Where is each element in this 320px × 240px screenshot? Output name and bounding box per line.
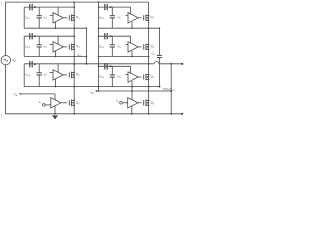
capacitor CP3 (vertical, inside loop) (37, 64, 42, 86)
wire left stage 1 opamp output to gate (63, 17, 67, 19)
source VP (AC source circle) (1, 56, 10, 65)
wire output rail right part (159, 63, 182, 65)
wire left stage 3 opamp output to gate (63, 74, 67, 76)
wire left lead lower (Vs to bottom rail) (4, 65, 6, 114)
wire right MOSFET bus (vertical) (148, 2, 150, 114)
wire right stage 2 opamp - input drop (131, 51, 133, 57)
node junction left bus / top rail (73, 1, 75, 3)
transistor Q1 (NMOS) (69, 15, 74, 22)
wire left stage 2 left edge (23, 36, 25, 56)
node bottom rail end terminal (181, 113, 183, 115)
transistor Q8 (bottom right) (NMOS) (144, 100, 149, 107)
node junction sense wire / bottom-right input (131, 90, 133, 92)
node junction row1 bottom / Cout corner (159, 27, 161, 29)
wire stage bottom wire shared row3 (24, 86, 159, 88)
node junction bus/stage1 bottom (73, 27, 75, 29)
wire right stage 1 bottom (99, 27, 160, 29)
node junction bottom-right / bottom rail (131, 113, 133, 115)
node junction stage2 bottom / link (86, 56, 88, 58)
wire right stage 1 opamp top feed (130, 7, 132, 14)
reference bubble (bottom-left opamp input) (43, 104, 46, 107)
wire left stage 2 opamp output to gate (63, 46, 67, 48)
wire right stage 3 top (99, 65, 131, 67)
wire left MOSFET bus (vertical) (73, 2, 75, 114)
node junction right bus / stage 1 bottom (148, 27, 150, 29)
wire VB left feed wire (20, 93, 55, 95)
wire bottom-left opamp - input stub (45, 104, 51, 106)
wire right stage 2 opamp output to gate (138, 46, 141, 48)
capacitor CP2 (vertical, inside loop) (37, 36, 42, 56)
node junction middle bus / right stage 1 top (98, 6, 100, 8)
wire right stage 2 opamp + input stub (125, 43, 128, 45)
transistor Q4 (NMOS) (144, 15, 149, 22)
node right stage 3 cap node (110, 65, 112, 67)
capacitor CP1 right (vertical, inside loop) (110, 7, 115, 28)
wire left stage 1 top (24, 6, 74, 8)
wire Cout lower lead (158, 58, 160, 87)
capacitor CS3 right series cap (series, on top wire) (105, 63, 107, 69)
node junction output rail / right bus (148, 63, 150, 65)
node junction Vout / sense wire (170, 90, 172, 92)
wire bottom-right opamp top input drop (131, 87, 133, 100)
wire left stage 3 opamp - input drop (54, 79, 56, 87)
wire right stage 2 opamp top feed (130, 36, 132, 43)
wire right stage 1 opamp - input drop (131, 22, 133, 28)
wire bottom-right opamp - input stub (122, 102, 127, 104)
wire left stage 1 opamp top feed (57, 7, 59, 15)
wire right stage 1 opamp + input stub (125, 14, 128, 16)
op-amp U1 comparator (53, 13, 63, 23)
transistor Q2 (NMOS) (69, 44, 74, 51)
node junction output rail / left bus (73, 63, 75, 65)
wire bottom-left opamp output to gate (61, 102, 67, 104)
wire output rail left part (row3 top) (24, 63, 154, 65)
wire bottom-right opamp output to gate (138, 102, 141, 104)
node right stage 3 - input node (131, 86, 133, 88)
op-amp U2 comparator (53, 42, 63, 52)
node right stage 2 - input node (131, 56, 133, 58)
node junction middle bus / right stage 2 top (98, 35, 100, 37)
op-amp U5 comparator (128, 42, 138, 52)
capacitor CP2 right (vertical, inside loop) (110, 36, 115, 56)
node junction right bus / stage 2 bottom (148, 56, 150, 58)
wire VB right sense wire (96, 90, 171, 92)
node junction bus/stage1 top (73, 6, 75, 8)
op-amp U6 comparator (128, 72, 138, 82)
wire right stage 2 bottom (99, 56, 149, 58)
wire left stage 2 bottom (24, 56, 86, 58)
node junction middle bus / right stage 1 bottom (98, 27, 100, 29)
op-amp U4 comparator (128, 13, 138, 23)
transistor Q3 (NMOS) (69, 72, 74, 79)
wire bottom-left opamp lower drop to rail (54, 106, 56, 114)
wire left lead upper (Vs to top rail) (4, 2, 6, 56)
wire left stage 3 left edge (23, 64, 25, 86)
transistor Q6 (NMOS) (144, 74, 149, 81)
wire left stage 3 opamp top feed (57, 64, 59, 72)
wire left stage 1 left edge (23, 7, 25, 28)
faint edge artifact bottom-left (1, 114, 3, 118)
transistor Q7 (bottom left) (NMOS) (69, 100, 74, 107)
wire left stage 1 opamp - input drop (54, 22, 56, 28)
faint edge artifact top-left (1, 1, 3, 5)
node right stage 1 cap node (110, 6, 112, 8)
transistor Q5 (NMOS) (144, 44, 149, 51)
wire left stage 2 opamp + input stub (50, 43, 53, 45)
wire Vout branch (170, 64, 172, 114)
node junction middle bus / top rail (98, 1, 100, 3)
reference bubble (bottom-right opamp input) (120, 102, 123, 105)
wire left stage 3 opamp + input stub (50, 71, 53, 73)
node right stage 2 cap node (110, 35, 112, 37)
op-amp U8 comparator (bottom right) (128, 98, 138, 108)
node junction stage1 bottom corner (86, 27, 88, 29)
node junction bus/stage2 top (73, 35, 75, 37)
wire left stage 1 opamp + input stub (50, 14, 53, 16)
node VB left terminal (19, 93, 21, 95)
node left stage 1 - input node (55, 27, 57, 29)
wire right stage 3 opamp output to gate (138, 76, 141, 78)
wire left stage 2 opamp top feed (57, 36, 59, 44)
node junction bus/stage3 top (73, 63, 75, 65)
wire middle bus (vertical) (98, 2, 100, 87)
node junction output rail / middle bus (98, 63, 100, 65)
node left stage 2 cap node (34, 35, 36, 37)
ground symbol (52, 115, 58, 119)
capacitor CS1 left series cap (series, on top wire) (30, 4, 32, 10)
node junction right bus / stage 3 bottom (148, 86, 150, 88)
node VB right terminal (96, 90, 98, 92)
capacitor CS1 right series cap (series, on top wire) (105, 4, 107, 10)
op-amp U3 comparator (53, 70, 63, 80)
wire bottom-left opamp top input drop (54, 94, 56, 100)
node junction left bus / row3 bottom (73, 86, 75, 88)
wire Cout upper lead (158, 28, 160, 55)
wire right stage 2 top (99, 35, 131, 37)
node row3 bottom end node (158, 86, 160, 88)
wire right stage 3 opamp - input drop (131, 81, 133, 87)
node right stage 1 - input node (131, 27, 133, 29)
capacitor CP3 right (vertical, inside loop) (110, 66, 115, 86)
wire bottom-right opamp lower drop to rail (131, 106, 133, 114)
node junction bottom-left / bottom rail (54, 113, 56, 115)
wire left stage 2 top (24, 35, 74, 37)
node junction middle bus / right stage 2 bottom (98, 56, 100, 58)
node junction left bus / bottom rail (73, 113, 75, 115)
wire hop (output rail hops over Cout lead) (154, 61, 159, 63)
node left stage 3 cap node (34, 63, 36, 65)
wire left stage 1 bottom (24, 27, 86, 29)
wire right stage 3 opamp top feed (130, 66, 132, 73)
capacitor CS2 left series cap (series, on top wire) (30, 33, 32, 39)
node junction right bus / bottom rail (148, 113, 150, 115)
wire top rail (5, 1, 148, 3)
node junction Vout / bottom rail (170, 113, 172, 115)
node left stage 3 - input node (55, 86, 57, 88)
node junction middle bus / sense wire (98, 90, 100, 92)
node junction (unused) bottom rail (158, 113, 160, 115)
wire middle bus lower tail (98, 87, 100, 91)
capacitor Cout (157, 55, 162, 57)
node junction middle bus / right stage 3 bottom (98, 86, 100, 88)
node left stage 1 cap node (34, 6, 36, 8)
node junction right bus / row3 bottom (148, 86, 150, 88)
node output rail end terminal (181, 63, 183, 65)
capacitor CS2 right series cap (series, on top wire) (105, 33, 107, 39)
capacitor CP1 (vertical, inside loop) (37, 7, 42, 28)
wire right stage 3 opamp + input stub (125, 74, 128, 76)
wire right stage 1 top (99, 6, 131, 8)
svg-text:VP: VP (12, 59, 16, 64)
op-amp U7 comparator (bottom left) (51, 98, 61, 108)
node junction middle bus / right stage 3 top (98, 66, 100, 68)
node junction bus/stage2 bottom (73, 56, 75, 58)
node junction Vout / output rail (170, 63, 172, 65)
wire bottom rail (5, 113, 182, 115)
capacitor CS3 left series cap (series, on top wire) (30, 61, 32, 67)
node junction row3 bottom / bottom-right input (131, 86, 133, 88)
wire right stage 1 opamp output to gate (138, 17, 141, 19)
wire inter-stage link (stage1 bottom to output rail) (85, 28, 87, 64)
node junction link / output rail (85, 63, 87, 65)
node left stage 2 - input node (55, 56, 57, 58)
wire left stage 2 opamp - input drop (54, 51, 56, 57)
